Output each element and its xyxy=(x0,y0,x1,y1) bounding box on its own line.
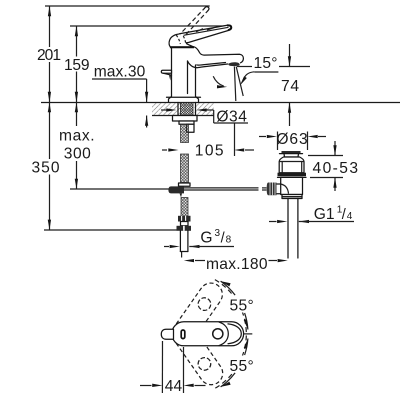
lever handle (rest position) xyxy=(180,25,232,43)
top view nub (lever tip) xyxy=(161,329,173,339)
cartridge dome xyxy=(169,34,194,47)
dimension 201 vertical line xyxy=(48,6,51,103)
label G3/8 with arrows xyxy=(164,228,234,248)
side boss and knurled knob xyxy=(276,183,281,185)
dimension 74 vertical line xyxy=(288,44,291,126)
svg-text:4: 4 xyxy=(347,211,353,222)
svg-text:3: 3 xyxy=(215,228,221,239)
wire: max.300 bottom reference line xyxy=(70,188,170,190)
svg-text:74: 74 xyxy=(281,78,299,95)
pop-up rod housing xyxy=(187,124,195,132)
svg-text:55°: 55° xyxy=(230,358,254,375)
label G1 1/4 with arrows xyxy=(269,204,354,223)
water stream lines xyxy=(234,67,243,102)
braided hose lower xyxy=(181,198,188,217)
label 55 lower xyxy=(228,356,257,373)
55 degree arc lower with arrows xyxy=(221,339,248,387)
dimension 105 horizontal xyxy=(162,124,254,160)
wire: second reference line (lever rest height) xyxy=(70,25,229,27)
drain: Ø63 dimension xyxy=(259,131,326,150)
dimension max.300 vertical line xyxy=(75,103,78,190)
rubber seal xyxy=(278,173,307,177)
svg-text:max.30: max.30 xyxy=(94,63,146,80)
svg-text:G: G xyxy=(200,229,212,246)
svg-text:105: 105 xyxy=(195,143,224,160)
label Ø34 with box xyxy=(161,108,248,125)
bottom collar xyxy=(282,195,302,197)
dashed swing arc xyxy=(215,280,246,389)
pop-up tee joint xyxy=(168,183,190,197)
svg-text:max.: max. xyxy=(59,127,95,144)
label max.30 with leader xyxy=(92,63,148,127)
55 degree arc upper with arrows xyxy=(221,281,248,329)
top view solid body xyxy=(172,322,244,346)
wire: spout outlet reference line xyxy=(237,66,310,68)
dashed lever ghost down (-55) xyxy=(170,321,227,389)
braided hose upper xyxy=(181,124,189,182)
svg-text:Ø63: Ø63 xyxy=(276,131,307,148)
svg-text:44: 44 xyxy=(165,378,183,395)
hose end fitting G3/8 xyxy=(177,216,192,258)
dimension 40-53 xyxy=(308,141,358,191)
lower body xyxy=(281,177,303,194)
wire: top reference line (raised lever height) xyxy=(45,5,210,7)
top view cartridge circle xyxy=(213,329,223,339)
top view slot mark xyxy=(181,330,185,339)
label 55 upper xyxy=(228,296,257,313)
pop-up horizontal rod xyxy=(184,188,267,190)
mounting shank through deck xyxy=(178,103,196,120)
pop-up rod knob xyxy=(161,70,171,80)
dimension 159 vertical line xyxy=(75,26,78,103)
svg-text:8: 8 xyxy=(226,234,232,245)
tailpipe xyxy=(287,199,289,259)
dashed raised lever ghost xyxy=(183,7,209,35)
dimension 350 vertical line xyxy=(48,103,51,231)
svg-text:300: 300 xyxy=(64,145,91,162)
axis tick xyxy=(244,333,253,335)
label 15 degrees with underline and leader arrow xyxy=(240,55,279,86)
dimension max.180 xyxy=(184,256,288,273)
wire: deck bottom line xyxy=(152,115,214,117)
svg-text:201: 201 xyxy=(37,47,61,64)
svg-text:55°: 55° xyxy=(230,298,254,315)
deck hatch left xyxy=(152,103,181,115)
flange bell xyxy=(279,157,304,173)
svg-text:40-53: 40-53 xyxy=(313,160,359,177)
dashed lever ghost up (+55) xyxy=(170,279,227,347)
aerator xyxy=(228,62,239,66)
svg-text:G1: G1 xyxy=(314,206,335,223)
wire: 350 bottom reference line xyxy=(44,229,177,231)
svg-text:159: 159 xyxy=(64,57,90,74)
svg-text:Ø34: Ø34 xyxy=(216,108,247,125)
svg-text:15°: 15° xyxy=(254,55,278,72)
mounting nut xyxy=(173,116,198,125)
wire: deck/counter top line xyxy=(41,102,400,104)
faucet spout xyxy=(188,47,244,68)
faucet body trunk xyxy=(167,48,201,102)
dimension 44 xyxy=(140,341,206,395)
stream swivel arrow left xyxy=(213,76,227,88)
svg-text:max.180: max.180 xyxy=(206,256,268,273)
plug cap xyxy=(282,151,301,154)
svg-text:350: 350 xyxy=(32,159,60,176)
deck hatch right xyxy=(195,103,214,115)
drain pop-up waste assembly xyxy=(267,151,306,258)
